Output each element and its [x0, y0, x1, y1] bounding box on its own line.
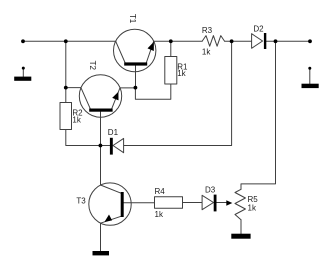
transistor T1 collector diagonal — [116, 41, 125, 62]
diode D2 cathode bar — [264, 33, 266, 49]
diode D3 triangle — [202, 195, 213, 209]
transistor T3 emitter diagonal — [101, 216, 122, 223]
node dot rail x231.5 — [230, 39, 234, 43]
ground bar right terminal — [302, 84, 319, 88]
wire R5 top feed from rail — [241, 41, 276, 189]
wire T2 collector — [66, 87, 81, 89]
wire R2 bottom to D1 node — [66, 130, 101, 146]
wire drop x66 rail to node — [65, 41, 67, 87]
resistor R3 — [202, 36, 224, 47]
node dot R2 top — [64, 86, 68, 90]
transistor T2 circle — [79, 75, 121, 117]
node dot rail right end — [308, 39, 312, 43]
transistor T1 circle — [114, 29, 156, 71]
node dot rail x275.5 — [274, 39, 278, 43]
node dot D1 cathode — [99, 144, 103, 148]
wire R5 bottom lead — [240, 220, 242, 234]
transistor T2 emitter arrow — [112, 92, 118, 101]
svg-text:D3: D3 — [205, 186, 216, 195]
transistor T3 circle — [89, 183, 131, 225]
resistor R1 — [165, 57, 177, 85]
wire R2 top lead — [65, 88, 67, 103]
R5 wiper arrow — [226, 200, 232, 206]
wire R4 to D3 — [183, 202, 203, 204]
wire node to R1 bottom loop — [135, 84, 170, 99]
node dot left terminal — [22, 67, 25, 70]
resistor R5 (potentiometer body) — [235, 189, 245, 220]
svg-text:T3: T3 — [76, 197, 86, 206]
diode D3 cathode bar — [214, 195, 217, 212]
transistor T3 emitter arrow — [104, 215, 112, 223]
diode D2 triangle — [252, 34, 263, 49]
wire T3 base to R4 — [124, 202, 155, 204]
transistor T3 base bar — [121, 192, 124, 217]
wire right terminal lead — [309, 68, 311, 83]
wire top rail left — [23, 40, 116, 42]
resistor R4 — [155, 197, 183, 209]
transistor T1 emitter arrow — [148, 42, 154, 51]
svg-text:R4: R4 — [155, 187, 166, 196]
wire T2 base down to T3 collector — [100, 112, 102, 185]
wire D1 cathode to node — [100, 145, 110, 147]
svg-text:R3: R3 — [202, 26, 213, 35]
svg-text:D2: D2 — [253, 24, 264, 33]
resistor R2 — [60, 103, 72, 130]
ground bar left terminal — [14, 77, 31, 81]
svg-text:1k: 1k — [177, 69, 186, 78]
ground bar R5 bottom — [231, 234, 250, 239]
node dot rail R1 top — [169, 39, 173, 43]
wire T1 base — [135, 66, 137, 88]
svg-text:D1: D1 — [108, 128, 119, 137]
transistor T2 emitter diagonal — [112, 88, 120, 109]
wire R1 top lead — [170, 41, 172, 56]
node dot rail x66 — [64, 39, 68, 43]
node dot right terminal — [308, 67, 311, 70]
wire rail T1 to R3 — [154, 40, 203, 42]
transistor T3 collector diagonal — [101, 185, 122, 193]
wire T2 emitter extension — [120, 87, 135, 89]
svg-text:1k: 1k — [248, 204, 257, 213]
svg-text:T2: T2 — [88, 61, 97, 71]
wire D3 to wiper arrow — [217, 202, 227, 204]
svg-text:T1: T1 — [128, 14, 137, 24]
node dot T1 base — [134, 86, 138, 90]
wire T3 emitter to ground — [100, 223, 102, 251]
wire drop x231.5 to D1 anode — [124, 41, 232, 145]
diode D1 triangle — [113, 138, 124, 152]
diode D1 cathode bar — [110, 138, 113, 155]
ground bar T3 emitter — [93, 251, 110, 255]
wire R3 to D2 — [225, 40, 252, 42]
wire D2 to right end — [266, 40, 310, 42]
svg-text:1k: 1k — [72, 116, 81, 125]
node dot rail left end — [21, 39, 25, 43]
transistor T1 emitter diagonal — [146, 41, 153, 62]
wire left terminal lead — [22, 68, 24, 77]
svg-text:1k: 1k — [155, 210, 164, 219]
transistor T2 base bar — [89, 109, 112, 112]
svg-text:1k: 1k — [202, 48, 211, 57]
transistor T2 collector diagonal — [81, 88, 90, 109]
transistor T1 base bar — [124, 62, 147, 65]
